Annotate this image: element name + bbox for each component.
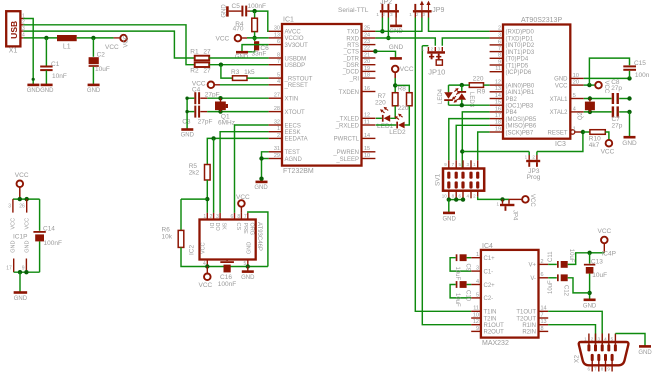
svg-text:6MHz: 6MHz [218,120,235,127]
wire TXD row (IC1 to JP9 pin2) [375,18,422,32]
svg-text:USBDP: USBDP [285,63,306,69]
IC3 pin 2 (RXD)PD0 [490,30,503,32]
svg-text:_RTS: _RTS [343,43,359,49]
svg-text:GND: GND [24,241,30,253]
connector X2 DB9 [579,342,629,365]
wire SV1 pin2 to VCC via JP4 [477,191,479,197]
svg-text:13: 13 [495,86,501,92]
IC U1 IC1 FT232BM box [282,24,362,166]
svg-text:9: 9 [22,266,25,272]
X2 pin 7 [598,361,600,372]
svg-text:XTAL1: XTAL1 [550,97,569,103]
svg-text:GND: GND [241,275,255,281]
IC1 pin 11 _RXLED [362,124,376,126]
svg-text:100n: 100n [635,72,650,79]
IC IC3 AT90S2313P box [503,25,570,139]
IC3 pin 6 (INT0)PD2 [490,44,503,46]
svg-text:16: 16 [495,106,501,112]
svg-text:20: 20 [573,80,579,86]
wire CTS to GND [375,51,395,58]
svg-text:T1OUT: T1OUT [516,310,536,316]
svg-text:3: 3 [8,204,11,210]
svg-text:7: 7 [244,214,247,220]
svg-text:C12: C12 [563,285,569,297]
svg-text:USBDM: USBDM [285,56,307,62]
svg-text:470: 470 [233,26,244,33]
svg-text:X1: X1 [9,47,18,54]
junction [587,291,591,295]
junction [588,110,592,114]
capacitor C12 10uF [548,277,557,279]
connector JP3 Prog [528,152,530,156]
svg-text:220: 220 [398,105,409,112]
svg-text:(OC1)PB3: (OC1)PB3 [506,104,534,110]
wire JP2 pin2 to RXD [387,18,389,39]
IC3 pin 19 (SCK)PB7 [490,131,503,133]
svg-text:7: 7 [498,46,501,52]
junction [218,96,222,100]
IC2 top pin 7 [247,213,249,220]
svg-text:6: 6 [541,272,544,278]
wire EEDATA branch to DO [213,138,215,213]
wire R5 to IC2 [206,180,208,213]
svg-text:(INT0)PD2: (INT0)PD2 [506,43,535,49]
svg-text:(MOSI)PB5: (MOSI)PB5 [506,117,537,123]
svg-text:Serial-TTL: Serial-TTL [338,7,369,14]
IC3 pin 11 (ICP)PD6 [490,71,503,73]
connector SV1 box [443,169,484,191]
svg-text:T1IN: T1IN [484,310,497,316]
svg-text:220: 220 [473,76,484,83]
resistor R6 10k [181,198,207,200]
wire EECS [235,125,269,213]
wire PB4 to SV1/JP3 [462,112,489,169]
IC1 pin 24 RXD [362,37,376,39]
wire X2 pin5 to GND [615,334,645,347]
svg-text:C1+: C1+ [484,256,496,262]
svg-text:PWRCTL: PWRCTL [334,137,360,143]
svg-text:20: 20 [364,59,370,65]
svg-text:10: 10 [573,73,579,79]
svg-text:12: 12 [495,80,501,86]
IC3 pin 12 (AIN0)PB0 [490,84,503,86]
svg-text:R8: R8 [398,85,407,92]
svg-text:R1: R1 [190,49,199,56]
wire GND row to C15 [584,77,630,79]
svg-text:FT232BM: FT232BM [283,168,314,175]
svg-text:DI: DI [208,223,214,229]
X2 pin 6 [591,361,593,372]
SV1 pin col 5 [476,172,479,179]
wire JP9 pin3 to AVR RXD [429,18,490,32]
svg-text:C14: C14 [43,226,55,233]
led LED4 [448,85,450,92]
svg-text:10uF: 10uF [548,280,554,294]
connector JP9 [413,10,432,12]
wire RESET node [537,132,584,152]
svg-text:10: 10 [473,312,479,318]
svg-text:23: 23 [364,39,370,45]
svg-text:11: 11 [473,306,479,312]
svg-text:5: 5 [573,93,576,99]
svg-text:GND: GND [247,242,253,254]
svg-text:GND: GND [11,241,17,253]
svg-text:4: 4 [573,106,576,112]
svg-text:28: 28 [274,106,280,112]
resistor R2 27 [195,62,210,67]
supply VCC (USB) [120,35,127,42]
junction [44,36,48,40]
svg-text:(MISO)PB6: (MISO)PB6 [506,124,537,130]
svg-text:GND: GND [27,88,41,94]
ground GND (IC2) [247,267,249,272]
svg-text:16: 16 [364,86,370,92]
IC1 pin 25 TXD [362,30,376,32]
svg-text:AT90S2313P: AT90S2313P [521,17,562,24]
supply VCC (R10) [606,140,613,147]
wire R7 to LED1 [390,106,395,119]
svg-text:33nF: 33nF [252,51,267,58]
connector JP4 [502,199,504,203]
svg-text:24: 24 [364,32,370,38]
IC1 pin 6 3V3OUT [269,44,282,46]
svg-text:14: 14 [364,133,370,139]
capacitor C14 100nF [39,199,41,231]
IC1 pin 27 XTIN [269,97,282,99]
svg-text:_RXLED: _RXLED [335,123,360,129]
junction [460,149,464,153]
svg-text:10: 10 [364,153,370,159]
resistor R9 220 [469,83,483,88]
svg-text:RXD: RXD [346,36,359,42]
IC4 pin 6 V- [539,277,549,279]
svg-text:17: 17 [6,266,12,272]
IC4 pin 13 R1IN [539,324,549,326]
wire XTAL2 row [584,111,612,113]
svg-text:GND: GND [638,350,652,356]
svg-text:GND: GND [554,77,568,83]
IC4 pin 9 R2OUT [471,330,481,332]
wire R1 to USBDM [209,57,268,59]
junction [393,83,397,87]
svg-text:10k: 10k [162,234,173,241]
svg-text:27pF: 27pF [205,91,220,98]
ground GND (C2) [88,84,100,87]
capacitor C9 10uF [467,257,472,259]
ground GND (CTS) [390,57,402,60]
svg-text:27: 27 [203,67,211,74]
wire USB D+ long [23,31,194,58]
IC2 bottom pin 5 [206,260,208,267]
svg-text:Q2: Q2 [578,111,584,120]
capacitor C15 100n [623,65,636,67]
wire PB7 to SV1 [478,132,490,160]
svg-text:3: 3 [216,214,219,220]
crystal Q1 6MHz [220,98,222,101]
svg-text:R1OUT: R1OUT [484,323,505,329]
svg-text:VCC: VCC [236,194,250,201]
SV1 pin col 4 [469,172,472,179]
svg-text:12: 12 [473,319,479,325]
capacitor C13 10uF [589,253,591,264]
wire VCC to R8 [395,85,409,92]
svg-text:GND: GND [583,303,597,309]
capacitor C2 10uF [92,38,94,57]
svg-text:SV1: SV1 [435,173,442,186]
wire R8 to LED2 [405,106,410,125]
svg-text:L1: L1 [63,43,71,50]
svg-text:GND: GND [40,88,54,94]
svg-text:VCC: VCC [105,44,119,51]
junction [252,9,256,13]
svg-text:GND: GND [14,296,28,302]
wire IC1P top rail [13,198,40,200]
SV1 pin col 2 [455,172,458,179]
supply VCC (RESET) [208,82,215,89]
svg-text:26: 26 [19,204,25,210]
svg-text:C9: C9 [465,264,471,272]
svg-text:X2: X2 [574,355,581,363]
IC4 pin 1 C1+ [471,257,481,259]
led LED1 [384,115,391,122]
IC4 pin 2 V+ [539,263,549,265]
svg-text:R6: R6 [162,227,171,234]
svg-text:7: 7 [541,312,544,318]
svg-text:ORG: ORG [248,223,254,236]
svg-text:_SLEEP: _SLEEP [335,157,359,163]
IC3 pin 7 (INT1)PD3 [490,51,503,53]
svg-text:VCC: VCC [15,172,29,179]
wire JP10 pin1 to MAX232 R1OUT [422,45,428,47]
svg-text:15: 15 [364,146,370,152]
svg-text:8: 8 [277,52,280,58]
svg-text:VCC: VCC [124,34,130,47]
capacitor C1 10nF [45,38,47,66]
svg-text:VCC: VCC [603,81,609,94]
inductor L1 [57,35,77,41]
svg-text:220: 220 [375,99,386,106]
wire PB3 row to LEDs [449,104,490,106]
svg-text:8: 8 [541,326,544,332]
X2 pin 5 [614,334,616,345]
svg-text:GND: GND [181,133,195,139]
IC3 pin 4 XTAL2 [570,111,583,113]
svg-text:XTAL2: XTAL2 [550,110,569,116]
svg-text:2: 2 [541,259,544,265]
IC4 pin 3 C1- [471,270,481,272]
SV1 pin col 1 [447,172,450,179]
wire RXD row (IC1 to JP10 pin2) [375,38,435,46]
junction [219,62,223,66]
IC1 pin 12 _TXLED [362,117,376,119]
svg-text:_RSTOUT: _RSTOUT [284,76,313,82]
X2 pin 4 [608,334,610,345]
supply VCC (LEDs) [392,66,399,73]
IC1P pin 26 [26,199,28,213]
resistor R4 470 [254,11,256,18]
IC4 pin 14 T1OUT [539,310,549,312]
led LED2 [398,122,405,129]
junction [211,136,215,140]
svg-text:6: 6 [498,39,501,45]
IC3 pin 17 (MOSI)PB5 [490,118,503,120]
wire PB6 to SV1 [456,125,489,160]
svg-text:GND: GND [443,216,457,222]
capacitor C3 27pF [194,106,196,118]
svg-text:SK: SK [221,223,227,231]
svg-text:VCC: VCC [555,83,568,89]
svg-text:Prog: Prog [527,174,541,181]
svg-text:MAX232: MAX232 [482,340,509,347]
svg-text:GND: GND [221,4,227,18]
svg-text:XTOUT: XTOUT [285,110,306,116]
svg-text:4: 4 [476,279,479,285]
svg-text:XTIN: XTIN [285,97,299,103]
connector X1 (USB) [6,11,20,46]
connector JP10 [427,47,429,51]
svg-text:C4: C4 [192,87,201,94]
svg-text:C2-: C2- [484,296,494,302]
svg-text:27pF: 27pF [198,119,213,126]
IC2 top pin 2 [213,213,215,220]
X2 pin 8 [605,361,607,372]
junction [373,49,377,53]
svg-text:TXD: TXD [347,30,360,36]
wire JP10 pin3 to AVR TXD [442,38,489,46]
svg-text:C10: C10 [465,290,471,302]
svg-text:VCC: VCC [529,194,535,207]
junction [91,36,95,40]
svg-text:11: 11 [495,66,501,72]
svg-text:_TXLED: _TXLED [335,117,359,123]
svg-text:GND: GND [87,88,101,94]
svg-text:10nF: 10nF [52,73,67,80]
IC4 pin 4 C2+ [471,284,481,286]
svg-text:5: 5 [277,73,280,79]
svg-text:(SCK)PB7: (SCK)PB7 [506,130,534,136]
svg-text:2: 2 [277,133,280,139]
IC1 pin 31 TEST [269,151,282,153]
IC1P pin 17 [13,259,15,273]
svg-text:11: 11 [364,119,370,125]
supply VCC (IC2 bottom) [206,267,208,274]
IC4 pin 11 T1IN [471,310,481,312]
svg-text:1: 1 [203,214,206,220]
IC3 pin 18 (MISO)PB6 [490,124,503,126]
wire IC1P bottom rail [14,271,40,273]
svg-text:VCC: VCC [601,148,615,155]
junction [627,76,631,80]
ground GND (JP2) [390,25,402,28]
svg-text:IC2: IC2 [189,245,196,256]
wire GND drop [19,272,21,292]
ground GND (crystal caps) [181,128,193,131]
ground GND (IC1P) [14,291,28,294]
svg-text:R2IN: R2IN [522,330,536,336]
junction [246,264,250,268]
svg-text:19: 19 [495,126,501,132]
X2 pin 2 [595,334,597,345]
IC1 pin 2 EEDATA [269,137,282,139]
svg-text:4: 4 [277,79,280,85]
resistor R8 220 [407,93,413,106]
svg-text:(AIN1)PB1: (AIN1)PB1 [506,90,535,96]
ground GND (crystal) [624,136,636,139]
IC1 pin 14 PWRCTL [362,137,376,139]
svg-text:3: 3 [498,32,501,38]
svg-text:_RESET: _RESET [284,83,309,89]
svg-text:VCC: VCC [199,282,213,289]
svg-text:2k2: 2k2 [189,170,200,177]
svg-text:13: 13 [274,32,280,38]
SV1 pin col 3 [461,172,464,179]
svg-text:2: 2 [498,26,501,32]
ground GND (AGND) [256,181,268,184]
capacitor C7 27p [612,106,614,117]
svg-text:10uF: 10uF [95,66,110,73]
wire R3 to RSTOUT [247,77,269,79]
svg-text:2: 2 [210,214,213,220]
svg-text:22: 22 [364,46,370,52]
svg-text:(INT1)PD3: (INT1)PD3 [506,50,535,56]
IC2 top pin 1 [206,213,208,220]
ground GND (USB shell) [27,84,39,87]
IC1 pin 32 EECS [269,124,282,126]
resistor R5 2k2 [205,165,211,181]
svg-text:27: 27 [203,49,211,56]
svg-text:18: 18 [495,120,501,126]
svg-text:(T1)PD5: (T1)PD5 [506,63,529,69]
svg-text:AT93C46P: AT93C46P [256,222,262,251]
svg-text:IC4: IC4 [482,243,493,250]
capacitor C11 10uF [548,263,557,265]
svg-text:5: 5 [476,292,479,298]
IC1 pin 10 _SLEEP [362,158,376,160]
wire EESK [220,132,269,213]
svg-text:VCC: VCC [400,66,414,73]
junction [259,177,263,181]
svg-text:25: 25 [364,26,370,32]
svg-text:100nF: 100nF [218,281,236,288]
wire VBUS to L1 [23,37,57,39]
IC3 pin 16 PB4 [490,111,503,113]
svg-text:V-: V- [530,276,536,282]
IC IC4 MAX232 box [481,250,539,338]
svg-text:VCC: VCC [24,218,30,230]
wire JP2 pin1 to TXD [381,18,383,32]
wire PB5 to SV1 [449,119,490,161]
svg-text:3: 3 [476,266,479,272]
svg-text:10: 10 [442,193,448,198]
IC1 pin 7 USBDP [269,64,282,66]
wire C5 to AVCC [255,11,269,31]
wire C4/C3 gnd column [186,98,188,129]
svg-text:C11: C11 [548,251,554,262]
svg-text:R1IN: R1IN [522,323,536,329]
ground GND (C1) [41,84,53,87]
junction [205,264,209,268]
wire USB D- long [23,25,194,65]
svg-text:R2: R2 [190,67,199,74]
svg-text:(T0)PD4: (T0)PD4 [506,57,529,63]
svg-text:C13: C13 [591,258,603,265]
ground GND (3V3OUT) [236,51,248,54]
svg-text:18: 18 [364,73,370,79]
svg-text:TEST: TEST [285,150,301,156]
svg-text:4k7: 4k7 [589,142,600,149]
capacitor C10 10uF [467,284,472,286]
IC3 pin 9 (T1)PD5 [490,64,503,66]
